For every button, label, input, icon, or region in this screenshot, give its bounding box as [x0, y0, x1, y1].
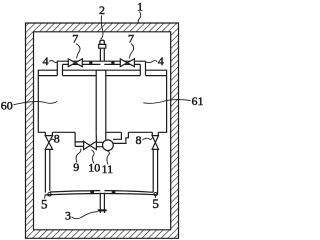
- svg-text:2: 2: [99, 3, 105, 17]
- svg-text:7: 7: [72, 32, 78, 46]
- bottom pipe: [45, 194, 157, 195]
- svg-text:9: 9: [73, 160, 79, 174]
- svg-text:10: 10: [88, 160, 100, 174]
- left stub down into tank 60: [57, 61, 62, 75]
- top edge bridge between tanks: [96, 69, 106, 71]
- pump feed from tank 60: [75, 132, 84, 146]
- inlet cap: [100, 40, 104, 44]
- svg-text:8: 8: [136, 133, 142, 147]
- center channel right wall down to pump: [105, 132, 107, 140]
- elbow curl left: [48, 193, 51, 196]
- tank 61 lid line: [106, 75, 167, 77]
- pipe valve to pump: [96, 142, 103, 146]
- svg-text:3: 3: [65, 209, 71, 223]
- svg-text:1: 1: [137, 0, 143, 14]
- tank 61 (right): [106, 70, 167, 132]
- valve 7 right (bowtie): [120, 59, 134, 67]
- inlet collar: [99, 44, 106, 48]
- left down pipe: [45, 149, 49, 192]
- junction dot right: [111, 61, 114, 64]
- svg-text:4: 4: [158, 54, 164, 68]
- tank 60 lid line: [38, 75, 96, 77]
- drain outlet 3: [100, 193, 104, 213]
- junction dot left: [89, 61, 92, 64]
- valve 8 right (vertical bowtie): [152, 132, 158, 135]
- svg-text:5: 5: [41, 196, 48, 211]
- svg-text:61: 61: [192, 94, 204, 108]
- bottom pipe junction dots: [90, 190, 94, 194]
- right stub down into tank 61: [140, 61, 145, 75]
- valve 10 (bowtie): [84, 141, 97, 149]
- svg-text:4: 4: [43, 54, 49, 68]
- tank 60 right edge extension: [95, 132, 97, 141]
- inlet pipe: [100, 48, 104, 61]
- wall hatched frame: [26, 23, 179, 238]
- pump 11 (circle): [103, 140, 114, 151]
- right down pipe: [153, 149, 157, 194]
- svg-text:7: 7: [128, 32, 134, 46]
- elbow curl right: [154, 193, 157, 196]
- valve 8 left (vertical bowtie): [45, 132, 52, 135]
- svg-text:5: 5: [152, 196, 159, 211]
- svg-text:60: 60: [1, 99, 13, 113]
- top run pipe: [57, 60, 145, 62]
- valve 7 left (bowtie): [68, 59, 82, 67]
- pump outlet to tank 61: [113, 132, 128, 143]
- svg-text:8: 8: [54, 132, 60, 146]
- tank 60 (left): [38, 70, 96, 132]
